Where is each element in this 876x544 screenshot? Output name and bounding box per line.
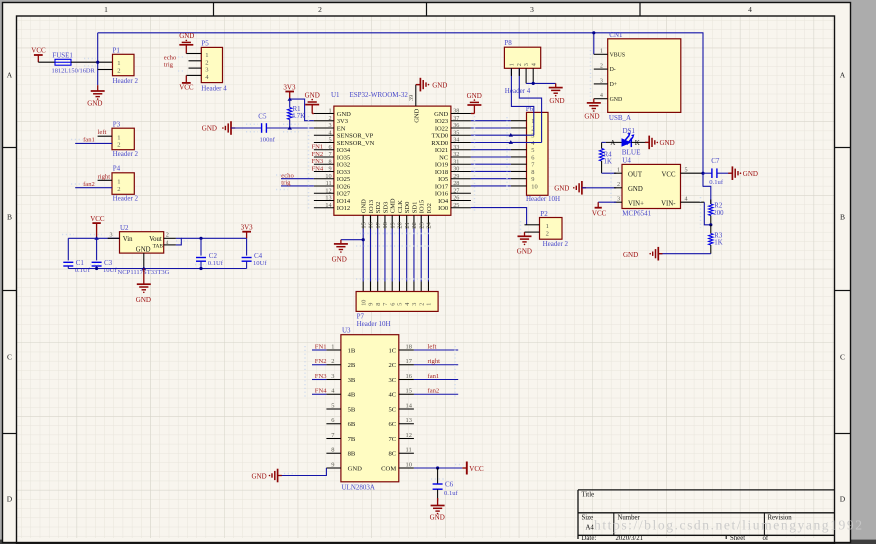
wire output rail to 3V3 — [181, 237, 246, 239]
svg-text:SD2: SD2 — [375, 202, 382, 214]
svg-text:3: 3 — [331, 373, 334, 380]
svg-text:Header 10H: Header 10H — [357, 320, 391, 328]
svg-text:2: 2 — [117, 142, 120, 149]
svg-text:GND: GND — [517, 248, 532, 256]
svg-text:17: 17 — [406, 358, 413, 365]
ground GND right of C7 — [728, 172, 732, 174]
wire R4 to U4 OUT — [602, 172, 617, 174]
connector P5 Header 4 — [201, 47, 222, 82]
svg-text:4C: 4C — [388, 392, 396, 399]
pin 20 CLK of U1 (bottom) — [398, 215, 400, 228]
connector P3 Header 2 — [112, 128, 134, 150]
svg-text:19: 19 — [390, 222, 397, 228]
pin 19 CMD of U1 (bottom) — [391, 215, 393, 228]
svg-text:TAB: TAB — [153, 244, 164, 250]
svg-text:3V3: 3V3 — [337, 118, 348, 125]
ground GND below P2 — [524, 232, 526, 236]
pin 10 COM of U3 — [399, 467, 414, 469]
svg-text:U3: U3 — [342, 327, 351, 335]
svg-text:10: 10 — [325, 173, 331, 180]
junction at P6 pin 4 — [509, 140, 513, 144]
svg-text:GND: GND — [202, 125, 217, 133]
svg-text:left: left — [428, 343, 437, 350]
pin 6 of P6 — [511, 156, 527, 158]
wire R3 to ground — [658, 253, 711, 255]
svg-text:VCC: VCC — [469, 465, 484, 473]
wire input rail C1/C3 to U2 Vin — [68, 237, 119, 239]
connector P1 Header 2 — [113, 54, 135, 75]
pin 2 3V3 of U1 — [314, 120, 334, 122]
svg-text:GND: GND — [332, 256, 347, 264]
svg-text:Header 2: Header 2 — [113, 77, 139, 85]
pin 5 SENSOR_VN of U1 — [314, 142, 334, 144]
svg-text:C: C — [840, 353, 845, 362]
svg-text:COM: COM — [381, 465, 396, 472]
svg-text:GND: GND — [432, 81, 447, 89]
svg-text:MCP6541: MCP6541 — [622, 210, 651, 218]
pin 16 3C of U3 — [399, 379, 414, 381]
resistor R1 4.7K — [289, 99, 291, 107]
svg-text:35: 35 — [453, 129, 459, 136]
svg-text:3B: 3B — [348, 377, 356, 384]
pin 2 wire of P2 — [525, 231, 540, 233]
pin 15 4C of U3 — [399, 393, 414, 395]
pin 1 wire of P2 — [525, 224, 540, 226]
svg-text:GND: GND — [179, 32, 194, 40]
pin 3 of P6 — [511, 134, 527, 136]
pin 4 TAB of U2 — [164, 244, 176, 246]
svg-text:IO5: IO5 — [438, 176, 448, 183]
ground GND above U1 pin 38 — [467, 92, 482, 114]
connector P6 Header 10H — [527, 112, 549, 195]
pin 12 IO27 of U1 — [314, 192, 334, 194]
svg-text:fan1: fan1 — [428, 373, 440, 380]
junction VCC / C3 node — [94, 236, 98, 240]
pin 3 wire of P5 — [189, 67, 202, 69]
pin 4 wire of P5 — [186, 74, 201, 76]
svg-text:IO25: IO25 — [337, 176, 350, 183]
svg-text:IO4: IO4 — [438, 198, 449, 205]
svg-text:8: 8 — [329, 158, 332, 165]
wire U1 TXD0 to P6 pin 3 — [471, 134, 534, 136]
zone labels top — [213, 3, 215, 16]
svg-text:A: A — [7, 71, 13, 80]
svg-text:B: B — [840, 213, 845, 222]
svg-text:Date:: Date: — [582, 535, 597, 542]
svg-text:3C: 3C — [388, 377, 396, 384]
svg-text:9: 9 — [329, 166, 332, 173]
pin 3 EN of U1 — [314, 127, 334, 129]
svg-text:1812L150/16DR: 1812L150/16DR — [52, 68, 96, 75]
svg-text:IO23: IO23 — [435, 118, 448, 125]
junction COM / C6 — [436, 466, 439, 469]
pin 2 wire of P8 to P6 pin 4 — [519, 68, 541, 142]
svg-text:38: 38 — [453, 108, 459, 115]
svg-text:NC: NC — [439, 154, 448, 161]
wire U1 pin 17 to P7 — [377, 229, 379, 282]
svg-text:IO34: IO34 — [337, 147, 351, 154]
pin 12 7C of U3 — [399, 438, 414, 440]
wire U1 IO21 to P6 pin 5 — [471, 149, 511, 151]
pin 6 IO34 of U1 — [314, 149, 334, 151]
svg-text:U4: U4 — [622, 157, 631, 165]
pin 39 GND of U1 (top) — [415, 85, 417, 107]
junction at fuse/P1 node — [96, 61, 99, 64]
svg-text:10: 10 — [406, 461, 412, 468]
svg-text:echo: echo — [164, 54, 177, 61]
svg-text:trig: trig — [164, 62, 174, 69]
svg-text:GND: GND — [361, 199, 368, 213]
svg-text:FN3: FN3 — [315, 373, 327, 380]
wire net FN4 to U3 pin 4 — [312, 393, 326, 395]
svg-text:1: 1 — [104, 5, 108, 14]
svg-text:2: 2 — [117, 68, 120, 75]
pin 6 6B of U3 — [326, 423, 341, 425]
svg-text:10Uf: 10Uf — [103, 267, 117, 274]
svg-text:SENSOR_VN: SENSOR_VN — [337, 140, 375, 147]
svg-text:4: 4 — [404, 303, 411, 306]
svg-text:P3: P3 — [113, 120, 121, 128]
wire U3 GND pin to ground — [278, 468, 327, 476]
pin 1 wire of P3 — [98, 135, 112, 137]
svg-text:34: 34 — [453, 137, 459, 144]
svg-text:2: 2 — [419, 303, 426, 306]
pin 37 IO23 of U1 — [451, 120, 471, 122]
svg-text:GND: GND — [549, 97, 564, 105]
wire net FN3 to U3 pin 3 — [312, 379, 326, 381]
capacitor C4 10Uf — [246, 238, 248, 255]
pin 29 IO5 of U1 — [451, 178, 471, 180]
pin 17 2C of U3 — [399, 364, 414, 366]
resistor R4 1K — [601, 142, 603, 148]
svg-text:Vin: Vin — [123, 236, 133, 243]
pin 22 SD1 of U1 (bottom) — [413, 215, 415, 228]
svg-text:2: 2 — [600, 64, 603, 70]
svg-text:CLK: CLK — [397, 200, 404, 213]
connector P7 Header 10H — [356, 292, 438, 312]
pin 27 IO16 of U1 — [451, 192, 471, 194]
pin 1 wire of P4 — [98, 179, 112, 181]
wire U3 pin 18 to net left — [414, 349, 458, 351]
wire U1 IO5 to P6 pin 9 — [471, 178, 511, 180]
svg-text:5: 5 — [329, 137, 332, 144]
svg-text:3: 3 — [329, 122, 332, 129]
svg-text:2: 2 — [205, 59, 208, 66]
svg-text:4: 4 — [600, 93, 603, 99]
svg-text:7B: 7B — [348, 436, 356, 443]
pin 1 OUT of U4 — [614, 172, 622, 174]
svg-text:0.1uf: 0.1uf — [709, 179, 724, 186]
svg-text:14: 14 — [325, 202, 331, 209]
wire U1 IO23 to P6 pin 1 — [471, 120, 511, 122]
svg-text:6B: 6B — [348, 421, 356, 428]
pin 4 4B of U3 — [326, 393, 341, 395]
wire U3 pin 17 to net right — [414, 364, 458, 366]
svg-text:17: 17 — [375, 221, 382, 228]
svg-text:100nf: 100nf — [260, 136, 276, 143]
svg-text:5: 5 — [685, 167, 688, 174]
svg-text:4: 4 — [329, 129, 332, 136]
svg-text:18: 18 — [382, 222, 389, 228]
svg-text:EN: EN — [337, 125, 346, 132]
svg-text:5: 5 — [331, 402, 334, 409]
svg-text:10: 10 — [361, 300, 368, 306]
svg-text:GND: GND — [305, 91, 320, 99]
svg-text:2: 2 — [318, 5, 322, 14]
power symbol VCC right of U3 — [462, 467, 467, 469]
junction at P6 pin 3 — [509, 133, 513, 137]
junction at R1/EN node — [288, 126, 292, 130]
svg-text:Size: Size — [582, 514, 594, 521]
svg-text:39: 39 — [408, 95, 415, 101]
pin 2 wire of P3 with net fan1 — [75, 142, 112, 144]
svg-text:15: 15 — [361, 222, 368, 228]
svg-text:3: 3 — [600, 78, 603, 84]
svg-text:13: 13 — [325, 195, 331, 202]
svg-text:right: right — [98, 173, 111, 180]
wire U1 pin 24 to P7 — [427, 229, 429, 282]
ground GND left of U3 — [278, 475, 282, 477]
pin 2 2B of U3 — [326, 364, 341, 366]
svg-text:3: 3 — [411, 303, 418, 306]
pin 4 of P6 — [511, 141, 527, 143]
LED DS1 BLUE — [606, 127, 649, 157]
svg-text:right: right — [428, 358, 441, 365]
ground GND left of C5 — [231, 127, 235, 129]
svg-text:16: 16 — [368, 222, 375, 228]
pin 11 8C of U3 — [399, 452, 414, 454]
pin 30 IO18 of U1 — [451, 171, 471, 173]
svg-text:https://blog.csdn.net/liumengy: https://blog.csdn.net/liumengyang1992 — [594, 518, 864, 533]
wire ESP32 pin15 to ground tap — [341, 239, 363, 241]
connector CN1 USB_A — [608, 39, 681, 113]
ground GND above P5 — [179, 32, 194, 53]
svg-text:FN4: FN4 — [312, 165, 324, 172]
ground GND above ESP32 pin 1 — [305, 91, 320, 113]
wire U1 IO17 to P6 pin 10 — [471, 185, 511, 187]
svg-text:C3: C3 — [104, 259, 113, 267]
capacitor C2 0.1Uf — [199, 237, 202, 240]
pin 1 wire of P8 to P6 pin 3 — [511, 68, 533, 135]
svg-text:14: 14 — [406, 402, 413, 409]
pin 23 IO15 of U1 (bottom) — [420, 215, 422, 228]
svg-text:VCC: VCC — [179, 84, 194, 92]
wire C7 to ground — [717, 172, 731, 174]
svg-text:GND: GND — [337, 111, 351, 118]
svg-text:2: 2 — [331, 358, 334, 365]
svg-text:P8: P8 — [504, 39, 512, 47]
svg-text:IO27: IO27 — [337, 191, 351, 198]
svg-text:1: 1 — [617, 167, 620, 174]
pin 3 3B of U3 — [326, 379, 341, 381]
junction top rail / CN1 — [592, 31, 595, 34]
svg-text:SD3: SD3 — [382, 202, 389, 214]
power symbol VCC (fuse input) — [37, 55, 39, 62]
svg-text:FN3: FN3 — [312, 158, 324, 165]
pin 14 5C of U3 — [399, 408, 414, 410]
svg-text:USB_A: USB_A — [609, 114, 631, 122]
wire GND to C5 — [231, 127, 261, 129]
svg-text:P2: P2 — [540, 210, 548, 218]
svg-text:10: 10 — [531, 183, 537, 190]
svg-text:5: 5 — [531, 147, 534, 154]
svg-text:1: 1 — [117, 178, 120, 185]
svg-text:P4: P4 — [113, 164, 121, 172]
svg-text:GND: GND — [743, 170, 758, 178]
svg-text:4.7K: 4.7K — [292, 113, 305, 120]
pin 7 of P6 — [511, 163, 527, 165]
svg-text:12: 12 — [406, 432, 412, 439]
pin 33 IO21 of U1 — [451, 149, 471, 151]
svg-text:8: 8 — [375, 303, 382, 306]
svg-text:VIN-: VIN- — [661, 200, 676, 207]
wire U1 pin 22 to P7 — [413, 229, 415, 282]
svg-text:ULN2803A: ULN2803A — [342, 484, 375, 492]
junction divider node — [709, 223, 712, 226]
pin 38 GND of U1 — [451, 113, 471, 115]
capacitor C1 0.1Uf — [67, 238, 69, 260]
svg-text:R3: R3 — [714, 232, 723, 239]
svg-text:CMD: CMD — [390, 198, 397, 213]
pin 8 IO32 of U1 — [314, 163, 334, 165]
resistor R2 200 — [710, 200, 712, 205]
svg-text:15: 15 — [406, 388, 412, 395]
pin 3 VIN+ of U4 — [614, 201, 622, 203]
wire net FN1 to U3 pin 1 — [312, 349, 326, 351]
svg-text:3: 3 — [523, 63, 530, 66]
svg-text:RXD0: RXD0 — [431, 140, 448, 147]
svg-text:1: 1 — [205, 52, 208, 59]
svg-text:SENSOR_VP: SENSOR_VP — [337, 133, 374, 140]
capacitor C5 100nf — [261, 123, 263, 133]
pin 9 IO33 of U1 — [314, 171, 334, 173]
wire U1 IO0 to P2 pin 1 — [471, 208, 527, 225]
svg-text:P5: P5 — [201, 39, 209, 47]
pin 9 of P6 — [511, 178, 527, 180]
pin 5 of P6 — [511, 149, 527, 151]
svg-text:21: 21 — [404, 222, 411, 228]
svg-text:1: 1 — [331, 343, 334, 350]
wire U4 VIN- to divider node — [704, 202, 711, 225]
svg-text:IO35: IO35 — [337, 154, 350, 161]
svg-text:9: 9 — [531, 176, 534, 183]
IC U4 MCP6541 — [622, 164, 681, 208]
svg-text:IO33: IO33 — [337, 169, 350, 176]
pin 2 of P6 — [511, 127, 527, 129]
svg-text:3V3: 3V3 — [241, 224, 254, 232]
svg-text:left: left — [98, 129, 107, 136]
pin 8 8B of U3 — [326, 452, 341, 454]
svg-text:6: 6 — [531, 154, 534, 161]
svg-text:1K: 1K — [604, 159, 612, 166]
svg-text:B: B — [7, 213, 12, 222]
pin 28 IO17 of U1 — [451, 185, 471, 187]
svg-text:Header 4: Header 4 — [505, 87, 531, 95]
svg-text:4B: 4B — [348, 392, 356, 399]
ground GND right of DS1 — [645, 141, 649, 143]
svg-text:OUT: OUT — [628, 171, 643, 178]
pale connection hotspot dots — [62, 50, 701, 479]
power symbol VCC below U4 VIN+ — [598, 201, 616, 203]
wire VCC rail vertical (right) — [702, 33, 704, 187]
svg-text:GND: GND — [136, 246, 151, 253]
svg-text:37: 37 — [453, 115, 459, 122]
ground GND right of P6 to U4 GND pin — [582, 187, 586, 189]
pin 5 VCC of U4 — [681, 172, 703, 174]
wire DS1 anode to R4 — [602, 141, 606, 143]
svg-text:of: of — [763, 535, 769, 542]
svg-text:echo: echo — [281, 172, 294, 179]
wire Vout/TAB tie — [176, 238, 181, 245]
pin 1 1B of U3 — [326, 349, 341, 351]
svg-text:IO22: IO22 — [435, 125, 448, 132]
pin 2 of P1 — [98, 69, 113, 71]
svg-text:200: 200 — [713, 210, 724, 217]
svg-text:5B: 5B — [348, 406, 356, 413]
capacitor C3 10Uf — [96, 238, 98, 260]
svg-text:P1: P1 — [113, 46, 121, 54]
svg-text:D: D — [840, 495, 846, 504]
pin 14 IO12 of U1 — [314, 207, 334, 209]
svg-text:6C: 6C — [388, 421, 396, 428]
svg-text:D+: D+ — [610, 82, 617, 88]
pin 3 Vin of U2 — [108, 237, 120, 239]
svg-text:GND: GND — [348, 465, 363, 472]
svg-text:U1: U1 — [331, 91, 340, 99]
title block — [578, 489, 835, 491]
svg-text:9: 9 — [331, 461, 334, 468]
svg-text:1K: 1K — [714, 240, 722, 247]
svg-text:27: 27 — [453, 187, 459, 194]
pin 31 IO19 of U1 — [451, 163, 471, 165]
svg-text:trig: trig — [281, 180, 291, 187]
svg-text:R4: R4 — [604, 151, 613, 158]
pin 24 IO2 of U1 (bottom) — [427, 215, 429, 228]
svg-text:2: 2 — [546, 230, 549, 237]
svg-text:4: 4 — [685, 196, 688, 203]
svg-text:U2: U2 — [120, 224, 129, 232]
svg-text:GND: GND — [467, 92, 482, 100]
svg-text:1: 1 — [329, 108, 332, 115]
svg-text:GND: GND — [554, 185, 569, 193]
wire echo to U1 IO25 — [281, 178, 314, 180]
connector P4 Header 2 — [112, 173, 134, 195]
svg-text:VBUS: VBUS — [610, 52, 625, 58]
svg-text:1: 1 — [426, 303, 433, 306]
svg-text:C2: C2 — [209, 252, 218, 260]
pin 5 5B of U3 — [326, 408, 341, 410]
svg-text:FN2: FN2 — [312, 151, 324, 158]
pin 11 IO26 of U1 — [314, 185, 334, 187]
wire jog VCC to R2 — [703, 186, 711, 204]
wire U1 IO22 to P6 pin 2 — [471, 127, 511, 129]
svg-text:fan1: fan1 — [83, 137, 95, 144]
svg-text:3: 3 — [530, 5, 534, 14]
pin 4 GND of CN1 — [594, 98, 608, 100]
svg-text:3: 3 — [110, 232, 113, 239]
svg-text:R2: R2 — [714, 202, 723, 209]
wire U1 pin 18 to P7 — [384, 229, 386, 282]
svg-text:GND: GND — [252, 473, 267, 481]
svg-text:D-: D- — [610, 67, 616, 73]
svg-text:fan2: fan2 — [83, 181, 95, 188]
wire U1 IO19 to P6 pin 7 — [471, 163, 511, 165]
svg-text:GND: GND — [610, 97, 623, 103]
svg-text:2C: 2C — [388, 362, 396, 369]
svg-text:C6: C6 — [445, 480, 454, 488]
pin 21 SD0 of U1 (bottom) — [406, 215, 408, 228]
svg-text:IO2: IO2 — [426, 203, 433, 213]
